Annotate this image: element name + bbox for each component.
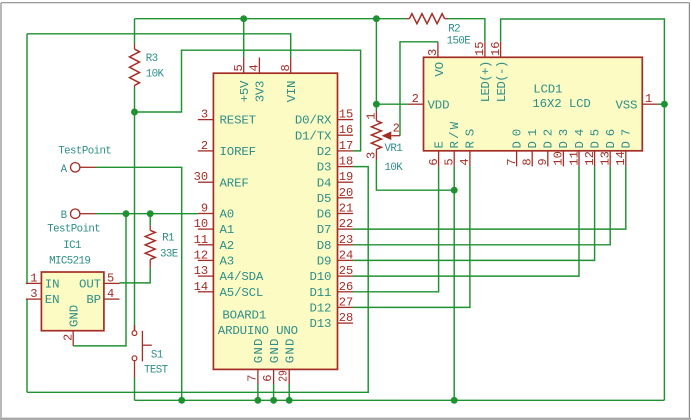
wire D9 to LCD D5 <box>353 166 594 260</box>
svg-text:1: 1 <box>645 92 652 106</box>
wire VIN net top <box>27 34 291 58</box>
svg-text:1: 1 <box>365 113 379 120</box>
svg-text:A5/SCL: A5/SCL <box>220 286 264 300</box>
svg-text:D8: D8 <box>317 239 332 253</box>
pin LCD E 6 <box>427 141 447 166</box>
pin IC1 OUT 5 <box>79 271 119 291</box>
junction gnd TPA <box>178 397 185 404</box>
svg-text:9: 9 <box>201 202 208 216</box>
wire E riser <box>353 166 439 291</box>
svg-text:IOREF: IOREF <box>220 145 256 159</box>
pin arduino D12 27 <box>309 295 353 315</box>
svg-text:2: 2 <box>412 92 419 106</box>
svg-text:R1: R1 <box>162 233 174 245</box>
wire RW to ground <box>453 166 455 400</box>
svg-text:12: 12 <box>583 151 597 166</box>
junction +5V VDD branch <box>373 15 380 22</box>
svg-text:5: 5 <box>107 271 114 285</box>
pin arduino GND 29 <box>277 339 298 384</box>
svg-text:12: 12 <box>194 248 209 262</box>
wire +5V branch to VDD and VR1 <box>375 19 377 111</box>
pin arduino +5V 5 <box>232 58 252 103</box>
svg-text:2: 2 <box>393 122 400 136</box>
pin IC1 IN 1 <box>26 271 60 291</box>
pin arduino D5 20 <box>317 186 353 206</box>
svg-text:R3: R3 <box>146 53 158 65</box>
svg-text:19: 19 <box>339 170 354 184</box>
svg-text:28: 28 <box>339 311 354 325</box>
wire D7 to LCD D7 <box>353 166 626 229</box>
pin arduino D7 22 <box>317 217 353 237</box>
svg-text:10K: 10K <box>146 68 165 80</box>
junction gnd pin6 <box>270 397 277 404</box>
pin IC1 GND 2 <box>62 305 82 346</box>
pin arduino D8 23 <box>317 233 353 253</box>
junction R3 bottom <box>131 109 138 116</box>
wire GND pin7 <box>257 384 259 400</box>
svg-text:3: 3 <box>365 152 379 159</box>
pin arduino A4/SDA 13 <box>194 264 264 284</box>
pin LCD VO 3 <box>426 42 447 77</box>
svg-text:10K: 10K <box>385 162 404 174</box>
wire D10 to LCD D4 <box>353 166 579 276</box>
svg-text:TestPoint: TestPoint <box>47 223 100 235</box>
svg-text:8: 8 <box>279 64 293 71</box>
svg-text:4: 4 <box>248 64 262 71</box>
svg-text:16X2 LCD: 16X2 LCD <box>532 97 590 111</box>
pin arduino D1/TX 16 <box>295 123 353 143</box>
svg-text:30: 30 <box>194 170 209 184</box>
pin IC1 BP 4 <box>86 287 119 307</box>
svg-text:3: 3 <box>426 49 440 56</box>
pin arduino A0 9 <box>198 202 234 222</box>
svg-text:LED(-): LED(-) <box>495 61 509 103</box>
pin arduino A5/SCL 14 <box>194 280 264 300</box>
svg-text:150E: 150E <box>447 35 471 47</box>
svg-text:D1/TX: D1/TX <box>295 129 332 143</box>
svg-text:BOARD1: BOARD1 <box>222 309 266 323</box>
wire +5V to pin5 <box>243 19 245 58</box>
pin arduino D11 26 <box>309 280 353 300</box>
wire rail1 VIN bottom <box>27 167 368 393</box>
svg-text:D12: D12 <box>309 302 331 316</box>
svg-text:16: 16 <box>489 41 503 56</box>
svg-text:MIC5219: MIC5219 <box>49 255 90 267</box>
pin arduino D10 25 <box>309 264 353 284</box>
pin LCD R/W 5 <box>443 121 463 166</box>
svg-text:21: 21 <box>339 202 354 216</box>
wire R3 bottom to S1 <box>134 87 136 331</box>
svg-text:5: 5 <box>232 64 246 71</box>
svg-text:4: 4 <box>458 158 472 165</box>
svg-text:33E: 33E <box>160 248 178 260</box>
pin LCD D3 10 <box>552 129 572 166</box>
resistor R1 <box>145 225 178 268</box>
wire VR1 pin3 to RW <box>376 160 454 190</box>
pin arduino A1 10 <box>194 217 234 237</box>
junction VDD VR1 <box>373 101 380 108</box>
svg-text:5: 5 <box>443 158 457 165</box>
wire VSS stub <box>658 103 665 105</box>
junction VR1-3 RW <box>451 187 458 194</box>
testpoint A <box>58 146 111 176</box>
svg-text:24: 24 <box>339 248 354 262</box>
wire R3 top <box>134 19 136 44</box>
svg-text:VIN: VIN <box>285 81 299 103</box>
IC U1 MIC5219 body <box>41 272 104 331</box>
junction gnd pin7 <box>254 397 261 404</box>
pin arduino D4 19 <box>317 170 353 190</box>
svg-text:18: 18 <box>339 155 354 169</box>
svg-text:D0/RX: D0/RX <box>295 114 332 128</box>
wire +5V top rail <box>135 18 406 20</box>
pin arduino VIN 8 <box>279 58 299 103</box>
pin arduino D13 28 <box>309 311 353 331</box>
svg-text:3: 3 <box>201 108 208 122</box>
svg-text:ARDUINO UNO: ARDUINO UNO <box>218 324 298 338</box>
wire ground rail2 <box>135 399 665 401</box>
svg-text:GND: GND <box>252 339 266 364</box>
svg-text:A0: A0 <box>220 208 235 222</box>
pin LCD LED(-) 16 <box>489 41 509 102</box>
wire GND pin6 <box>273 384 275 400</box>
svg-text:D10: D10 <box>309 270 331 284</box>
svg-text:4: 4 <box>107 287 114 301</box>
svg-text:S1: S1 <box>151 350 163 362</box>
svg-text:2: 2 <box>62 334 76 341</box>
svg-text:A4/SDA: A4/SDA <box>220 270 264 284</box>
junction gnd pin29 <box>286 397 293 404</box>
svg-text:27: 27 <box>339 295 354 309</box>
svg-text:15: 15 <box>339 108 354 122</box>
junction VSS gnd <box>661 101 668 108</box>
svg-text:VDD: VDD <box>428 98 450 112</box>
svg-text:9: 9 <box>536 158 550 165</box>
svg-text:IC1: IC1 <box>63 240 81 252</box>
svg-text:VSS: VSS <box>615 98 637 112</box>
svg-text:VO: VO <box>433 62 447 77</box>
pin LCD D7 14 <box>614 129 634 166</box>
label LCD1 <box>532 83 590 111</box>
pin LCD LED(+) 15 <box>473 41 493 102</box>
pin LCD VSS 1 <box>615 92 657 112</box>
svg-text:GND: GND <box>268 339 282 364</box>
pin IC1 EN 3 <box>26 287 60 307</box>
pin LCD D2 9 <box>536 129 556 166</box>
svg-text:7: 7 <box>245 374 259 381</box>
pin arduino D0/RX 15 <box>295 108 353 128</box>
pin LCD D1 8 <box>521 129 541 166</box>
svg-text:D2: D2 <box>317 145 332 159</box>
wire GND pin29 <box>288 384 290 400</box>
pin arduino D3 18 <box>317 155 353 175</box>
svg-text:TestPoint: TestPoint <box>58 146 111 158</box>
svg-text:TEST: TEST <box>144 364 169 376</box>
junction +5V pin5 <box>240 15 247 22</box>
svg-text:13: 13 <box>194 264 209 278</box>
wire VDD stub <box>376 103 408 105</box>
svg-text:17: 17 <box>339 139 354 153</box>
svg-text:LCD1: LCD1 <box>533 83 562 97</box>
svg-text:A3: A3 <box>220 255 235 269</box>
svg-text:29: 29 <box>277 370 291 382</box>
svg-text:15: 15 <box>473 41 487 56</box>
wire D8 to LCD D6 <box>353 166 610 244</box>
svg-text:D7: D7 <box>317 223 332 237</box>
pin LCD VDD 2 <box>408 92 449 112</box>
wire TestPoint B to A0 <box>96 213 198 215</box>
svg-text:D6: D6 <box>317 208 332 222</box>
svg-text:13: 13 <box>599 151 613 166</box>
wire IC1 EN to rail1 <box>26 299 28 392</box>
testpoint B <box>47 209 100 235</box>
svg-text:OUT: OUT <box>79 278 101 292</box>
pin arduino GND 7 <box>245 339 266 384</box>
svg-text:8: 8 <box>521 158 535 165</box>
svg-text:25: 25 <box>339 264 354 278</box>
svg-text:D5: D5 <box>317 192 332 206</box>
svg-text:GND: GND <box>67 305 81 327</box>
pin arduino AREF 30 <box>194 170 249 190</box>
svg-text:6: 6 <box>261 374 275 381</box>
svg-text:2: 2 <box>201 139 208 153</box>
pin arduino A3 12 <box>194 248 234 268</box>
pin LCD D6 13 <box>599 129 619 166</box>
wire RS riser <box>353 166 470 307</box>
junction B IC1 GND <box>123 210 130 217</box>
svg-text:AREF: AREF <box>220 176 249 190</box>
svg-text:IN: IN <box>45 278 60 292</box>
svg-text:20: 20 <box>339 186 354 200</box>
svg-text:+5V: +5V <box>238 80 252 102</box>
pin LCD D4 11 <box>567 129 587 166</box>
pin arduino A2 11 <box>194 233 234 253</box>
wire S1 bottom to rail2 <box>134 378 136 401</box>
svg-text:VR1: VR1 <box>385 143 403 155</box>
svg-text:7: 7 <box>505 158 519 165</box>
potentiometer VR1 <box>365 111 404 174</box>
pin arduino 3V3 4 <box>248 58 268 103</box>
svg-text:E: E <box>432 141 446 148</box>
svg-text:3V3: 3V3 <box>254 81 268 103</box>
svg-text:R2: R2 <box>448 23 460 35</box>
junction gnd RW <box>451 397 458 404</box>
svg-text:D13: D13 <box>309 317 331 331</box>
pin arduino RESET 3 <box>198 108 256 128</box>
pin arduino D9 24 <box>317 248 353 268</box>
svg-text:10: 10 <box>552 151 566 166</box>
svg-text:GND: GND <box>283 339 297 364</box>
wire R2 right to LED(+) <box>448 19 485 42</box>
svg-text:10: 10 <box>194 217 209 231</box>
svg-text:D11: D11 <box>309 286 331 300</box>
svg-text:14: 14 <box>614 151 628 166</box>
svg-text:14: 14 <box>194 280 209 294</box>
pin arduino D2 17 <box>317 139 353 159</box>
svg-text:16: 16 <box>339 123 354 137</box>
label BOARD1 <box>222 309 266 323</box>
svg-text:RESET: RESET <box>220 114 256 128</box>
board U2 ARDUINO UNO body <box>213 73 337 369</box>
pin arduino IOREF 2 <box>198 139 256 159</box>
wire IC1 GND riser <box>73 214 126 346</box>
svg-text:D9: D9 <box>317 255 332 269</box>
IC1 label <box>49 240 90 267</box>
svg-text:D4: D4 <box>317 176 332 190</box>
svg-text:1: 1 <box>30 271 37 285</box>
wire R1 bottom to OUT <box>120 268 151 283</box>
svg-text:26: 26 <box>339 280 354 294</box>
svg-text:A1: A1 <box>220 223 235 237</box>
svg-text:R/W: R/W <box>448 121 462 148</box>
pin LCD D5 12 <box>583 129 603 166</box>
svg-text:22: 22 <box>339 217 354 231</box>
pin arduino D6 21 <box>317 202 353 222</box>
pin arduino GND 6 <box>261 339 282 384</box>
svg-text:A2: A2 <box>220 239 235 253</box>
wire VR1 wiper to VO <box>400 42 438 136</box>
svg-text:11: 11 <box>194 233 209 247</box>
svg-text:6: 6 <box>427 158 441 165</box>
svg-text:LED(+): LED(+) <box>479 61 493 103</box>
svg-text:BP: BP <box>86 293 101 307</box>
resistor R2 <box>406 14 470 48</box>
pin LCD RS 4 <box>458 129 478 166</box>
svg-text:11: 11 <box>567 151 581 166</box>
label ARDUINO UNO <box>218 324 298 338</box>
svg-text:23: 23 <box>339 233 354 247</box>
switch S1 <box>132 325 169 377</box>
wire left rail to IC1 IN <box>26 34 28 284</box>
junction B R1 <box>147 210 154 217</box>
wire TestPoint A to ground <box>96 167 182 400</box>
svg-text:D3: D3 <box>317 161 332 175</box>
resistor R3 <box>130 44 165 87</box>
pin LCD D0 7 <box>505 129 525 166</box>
wire R3 node to D2 <box>135 50 361 151</box>
wire LED(-) to top right corner <box>501 19 665 400</box>
wire R1 top <box>149 214 151 225</box>
display LCD1 body <box>424 57 643 151</box>
svg-text:EN: EN <box>45 293 60 307</box>
svg-text:3: 3 <box>30 287 37 301</box>
